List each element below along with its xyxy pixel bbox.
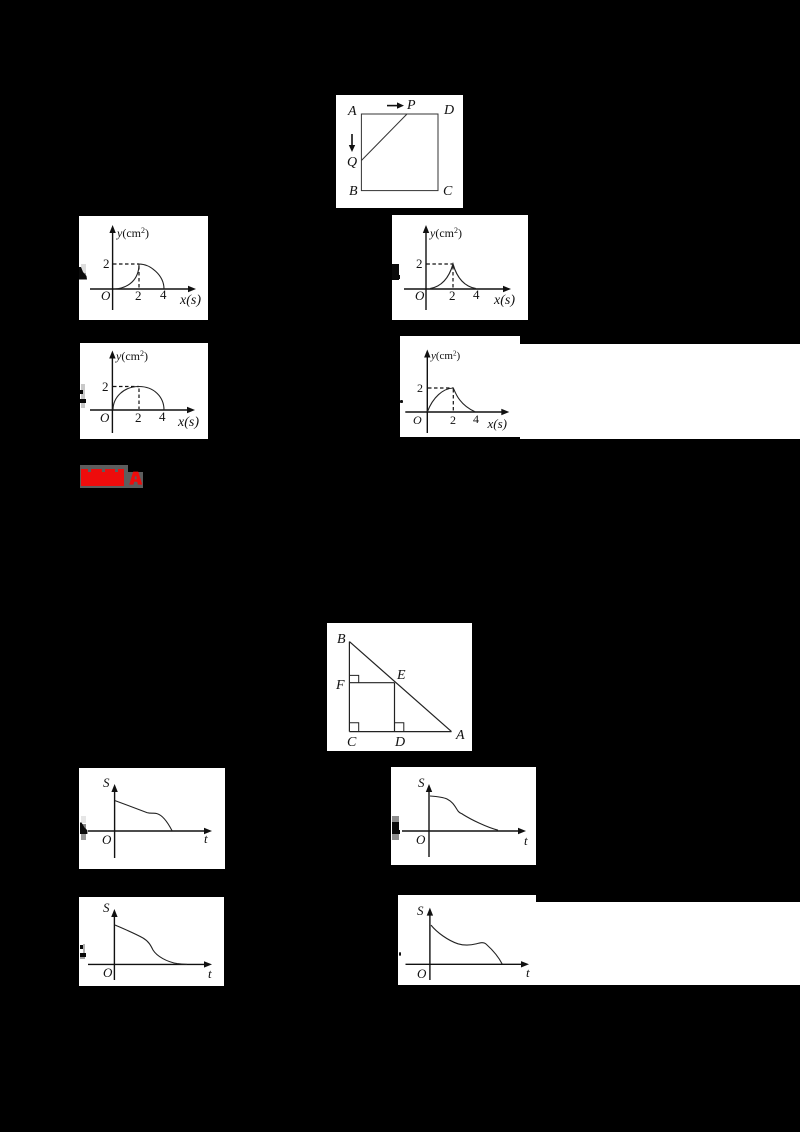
svg-text:2: 2 xyxy=(449,288,456,303)
svg-text:Q: Q xyxy=(347,155,357,170)
svg-text:4: 4 xyxy=(159,409,166,424)
svg-text:2: 2 xyxy=(103,256,110,271)
svg-text:S: S xyxy=(103,900,110,915)
svg-text:B: B xyxy=(337,632,346,647)
svg-text:2: 2 xyxy=(102,379,109,394)
svg-text:D: D xyxy=(394,735,405,750)
svg-text:y(cm2): y(cm2) xyxy=(115,349,148,363)
svg-text:O: O xyxy=(102,832,112,847)
svg-text:F: F xyxy=(335,678,345,693)
svg-text:O: O xyxy=(413,413,422,427)
svg-text:C: C xyxy=(347,735,357,750)
svg-text:y(cm2): y(cm2) xyxy=(430,350,461,363)
svg-text:C: C xyxy=(443,184,453,199)
svg-text:E: E xyxy=(396,668,406,683)
svg-text:A: A xyxy=(455,728,465,743)
svg-text:2: 2 xyxy=(135,410,142,425)
svg-text:4: 4 xyxy=(160,287,167,302)
svg-text:S: S xyxy=(418,775,425,790)
svg-text:2: 2 xyxy=(450,413,456,427)
svg-text:x(s): x(s) xyxy=(487,416,508,431)
svg-text:O: O xyxy=(416,832,426,847)
svg-text:A: A xyxy=(347,104,357,119)
svg-text:B: B xyxy=(349,184,358,199)
svg-text:t: t xyxy=(204,831,208,846)
svg-text:S: S xyxy=(417,903,424,918)
svg-text:y(cm2): y(cm2) xyxy=(429,226,462,240)
svg-text:2: 2 xyxy=(416,256,423,271)
svg-text:S: S xyxy=(103,775,110,790)
svg-text:y(cm2): y(cm2) xyxy=(116,226,149,240)
svg-text:P: P xyxy=(406,98,416,113)
svg-text:x(s): x(s) xyxy=(179,293,201,308)
svg-text:x(s): x(s) xyxy=(177,415,199,430)
svg-text:t: t xyxy=(208,966,212,981)
svg-text:O: O xyxy=(101,288,111,303)
svg-text:x(s): x(s) xyxy=(493,293,515,308)
svg-text:2: 2 xyxy=(417,381,423,395)
svg-text:t: t xyxy=(526,965,530,980)
svg-text:4: 4 xyxy=(473,287,480,302)
svg-text:t: t xyxy=(524,833,528,848)
svg-text:D: D xyxy=(443,103,454,118)
svg-text:4: 4 xyxy=(473,412,479,426)
svg-text:2: 2 xyxy=(135,288,142,303)
svg-text:O: O xyxy=(415,288,425,303)
svg-text:O: O xyxy=(417,966,427,981)
svg-text:O: O xyxy=(100,410,110,425)
svg-text:O: O xyxy=(103,965,113,980)
